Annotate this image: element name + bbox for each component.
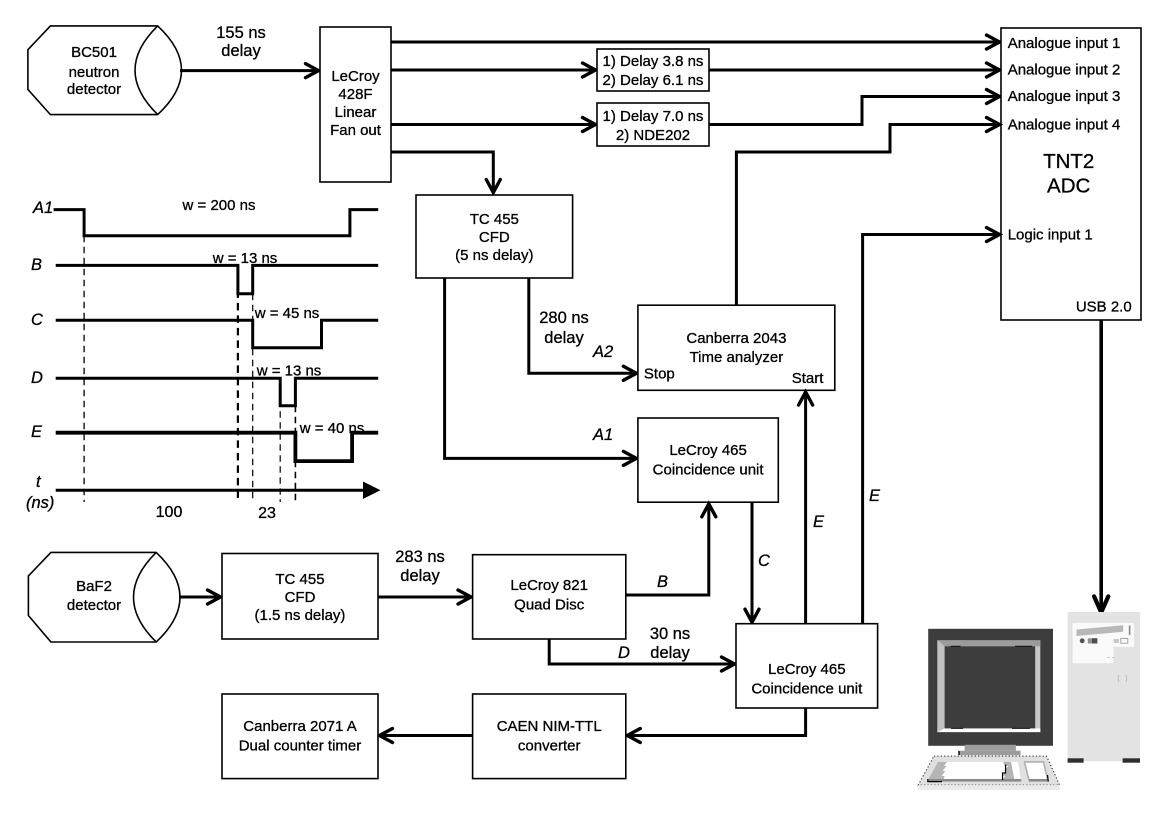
- svg-text:Coincidence unit: Coincidence unit: [751, 681, 863, 698]
- svg-text:delay: delay: [650, 644, 690, 662]
- wire: delay box 2 to analogue input 3: [709, 90, 1000, 125]
- svg-text:B: B: [31, 256, 42, 274]
- wire: coincidence unit 1 to coincidence unit 2 (C): [745, 502, 759, 622]
- svg-text:D: D: [618, 644, 630, 662]
- wire: fan-out output 4 to TC455 CFD: [391, 152, 500, 193]
- timing diagram: trace D: [56, 378, 379, 405]
- wire: fan-out output 1 to analogue input 1: [391, 35, 1000, 49]
- Canberra 2071 A dual counter timer: [222, 694, 378, 779]
- svg-text:LeCroy 821: LeCroy 821: [510, 577, 588, 594]
- BaF2 detector: [28, 552, 180, 642]
- TC 455 CFD (1.5 ns delay): [222, 554, 378, 640]
- label: 155 ns delay: [216, 24, 266, 60]
- Canberra 2043 time analyzer: [638, 305, 835, 390]
- svg-text:BC501: BC501: [71, 44, 117, 61]
- wire: delay box 1 to analogue input 2: [709, 63, 1000, 77]
- svg-text:Linear: Linear: [335, 104, 377, 121]
- timing diagram: dashed guide at B fall: [237, 265, 239, 502]
- timing diagram: t axis: [56, 482, 381, 499]
- wire: coincidence unit 2 to time analyzer start (E): [799, 392, 813, 624]
- LeCroy 428F linear fan out: [320, 27, 391, 182]
- svg-text:neutron: neutron: [69, 64, 120, 81]
- svg-text:TC 455: TC 455: [275, 571, 324, 588]
- svg-text:1) Delay 7.0 ns: 1) Delay 7.0 ns: [603, 108, 704, 125]
- svg-text:Stop: Stop: [644, 366, 675, 383]
- svg-text:w = 40 ns: w = 40 ns: [299, 420, 365, 437]
- wire: NIM-TTL converter to dual counter timer: [380, 729, 473, 743]
- wire: quad disc output D to coincidence unit 2: [549, 639, 734, 671]
- svg-text:converter: converter: [518, 738, 581, 755]
- svg-text:Time analyzer: Time analyzer: [690, 349, 784, 366]
- wire: time analyzer output to analogue input 4: [736, 118, 999, 306]
- svg-text:2) Delay 6.1 ns: 2) Delay 6.1 ns: [603, 72, 704, 89]
- svg-text:Logic input 1: Logic input 1: [1008, 227, 1093, 244]
- svg-text:detector: detector: [67, 81, 121, 98]
- svg-text:Quad Disc: Quad Disc: [514, 597, 585, 614]
- svg-text:C: C: [758, 552, 770, 570]
- svg-text:Start: Start: [792, 370, 825, 387]
- svg-text:w = 200 ns: w = 200 ns: [182, 197, 256, 214]
- timing diagram: dashed guide at D rise / E fall: [294, 406, 296, 502]
- svg-text:detector: detector: [67, 597, 121, 614]
- wire: coincidence unit 2 to TNT2 logic input 1 (E): [863, 228, 1000, 624]
- TNT2 ADC unit: [1001, 28, 1141, 320]
- svg-text:LeCroy 465: LeCroy 465: [768, 661, 846, 678]
- svg-text:BaF2: BaF2: [76, 578, 112, 595]
- svg-text:delay: delay: [400, 567, 440, 585]
- svg-text:283 ns: 283 ns: [395, 548, 445, 566]
- svg-text:ADC: ADC: [1047, 175, 1090, 198]
- BC501 neutron detector: [28, 26, 182, 115]
- svg-text:w = 13 ns: w = 13 ns: [212, 250, 278, 267]
- svg-text:A1: A1: [592, 426, 613, 444]
- label: 280 ns delay: [539, 309, 589, 347]
- svg-text:155 ns: 155 ns: [216, 24, 266, 42]
- svg-text:USB 2.0: USB 2.0: [1076, 299, 1132, 316]
- timing diagram: trace B: [56, 265, 379, 293]
- computer keyboard: [918, 756, 1059, 790]
- svg-text:TC 455: TC 455: [470, 211, 519, 228]
- delay box 1 (3.8 / 6.1 ns): [597, 49, 709, 91]
- timing diagram: trace A1: [54, 210, 379, 236]
- svg-text:23: 23: [258, 505, 276, 522]
- svg-text:Canberra 2071 A: Canberra 2071 A: [243, 718, 356, 735]
- svg-text:CFD: CFD: [479, 229, 510, 246]
- wire: BaF2 to TC455 CFD (1.5 ns): [179, 590, 221, 604]
- timing diagram: trace E: [56, 433, 379, 461]
- svg-text:C: C: [31, 311, 43, 329]
- computer monitor: [928, 629, 1053, 746]
- LeCroy 465 coincidence unit 2: [736, 624, 878, 708]
- wire: TC455 CFD to coincidence unit 1 (A1): [445, 278, 637, 465]
- svg-text:Fan out: Fan out: [330, 122, 382, 139]
- LeCroy 465 coincidence unit 1: [638, 418, 778, 502]
- svg-text:w = 13 ns: w = 13 ns: [256, 363, 322, 380]
- svg-text:Dual counter timer: Dual counter timer: [239, 738, 362, 755]
- timing diagram: trace C: [56, 320, 379, 347]
- label: 283 ns delay: [395, 548, 445, 585]
- timing diagram: dashed guide at A1 fall: [83, 236, 85, 502]
- svg-text:A1: A1: [32, 199, 53, 217]
- timing diagram: dashed guide at B rise / C fall: [252, 294, 254, 502]
- svg-text:Analogue input 3: Analogue input 3: [1008, 88, 1121, 105]
- wire: TC455 (1.5 ns) to LeCroy 821: [378, 590, 471, 604]
- wire: fan-out output 2 to delay box 1: [391, 63, 596, 77]
- wire: TNT2 USB 2.0 to computer: [1094, 320, 1108, 612]
- wire: fan-out output 3 to delay box 2: [391, 118, 596, 132]
- svg-text:100: 100: [156, 504, 183, 521]
- svg-text:(5 ns delay): (5 ns delay): [455, 247, 533, 264]
- svg-text:LeCroy: LeCroy: [331, 68, 380, 85]
- svg-text:delay: delay: [221, 42, 261, 60]
- svg-text:D: D: [31, 369, 43, 387]
- wire: coincidence unit 2 to NIM-TTL converter: [627, 708, 805, 743]
- label: 30 ns delay: [650, 625, 691, 662]
- CAEN NIM-TTL converter: [473, 694, 626, 779]
- svg-text:(ns): (ns): [26, 494, 54, 512]
- svg-text:E: E: [869, 487, 881, 505]
- svg-text:B: B: [657, 573, 668, 591]
- svg-text:Analogue input 1: Analogue input 1: [1008, 35, 1121, 52]
- LeCroy 821 quad disc: [473, 555, 626, 639]
- timing diagram: dashed guide at D fall: [279, 378, 281, 502]
- svg-text:CFD: CFD: [285, 589, 316, 606]
- svg-text:Analogue input 2: Analogue input 2: [1008, 62, 1121, 79]
- svg-text:280 ns: 280 ns: [539, 309, 589, 327]
- svg-text:Canberra 2043: Canberra 2043: [686, 330, 786, 347]
- delay box 2 (7.0 ns / NDE202): [597, 103, 709, 146]
- svg-text:delay: delay: [544, 329, 584, 347]
- computer monitor stand: [959, 745, 1021, 756]
- svg-text:1) Delay 3.8 ns: 1) Delay 3.8 ns: [603, 53, 704, 70]
- computer tower: [1068, 612, 1140, 763]
- TC 455 CFD (5 ns delay): [416, 195, 573, 278]
- svg-text:A2: A2: [592, 343, 613, 361]
- svg-text:(1.5 ns delay): (1.5 ns delay): [255, 607, 346, 624]
- svg-text:30 ns: 30 ns: [650, 625, 690, 643]
- svg-text:w = 45 ns: w = 45 ns: [254, 305, 320, 322]
- svg-text:LeCroy 465: LeCroy 465: [669, 442, 747, 459]
- svg-text:TNT2: TNT2: [1043, 150, 1094, 173]
- wire: quad disc output B to coincidence unit 1: [626, 504, 716, 595]
- svg-text:Analogue input 4: Analogue input 4: [1008, 117, 1121, 134]
- wire: BC501 to fan-out: [180, 64, 319, 78]
- svg-text:CAEN NIM-TTL: CAEN NIM-TTL: [497, 718, 602, 735]
- svg-text:428F: 428F: [338, 86, 372, 103]
- svg-text:E: E: [31, 423, 43, 441]
- wire: TC455 CFD to time analyzer stop (A2): [529, 278, 637, 380]
- svg-text:E: E: [813, 513, 825, 531]
- svg-text:Coincidence unit: Coincidence unit: [653, 462, 765, 479]
- svg-text:2) NDE202: 2) NDE202: [616, 127, 690, 144]
